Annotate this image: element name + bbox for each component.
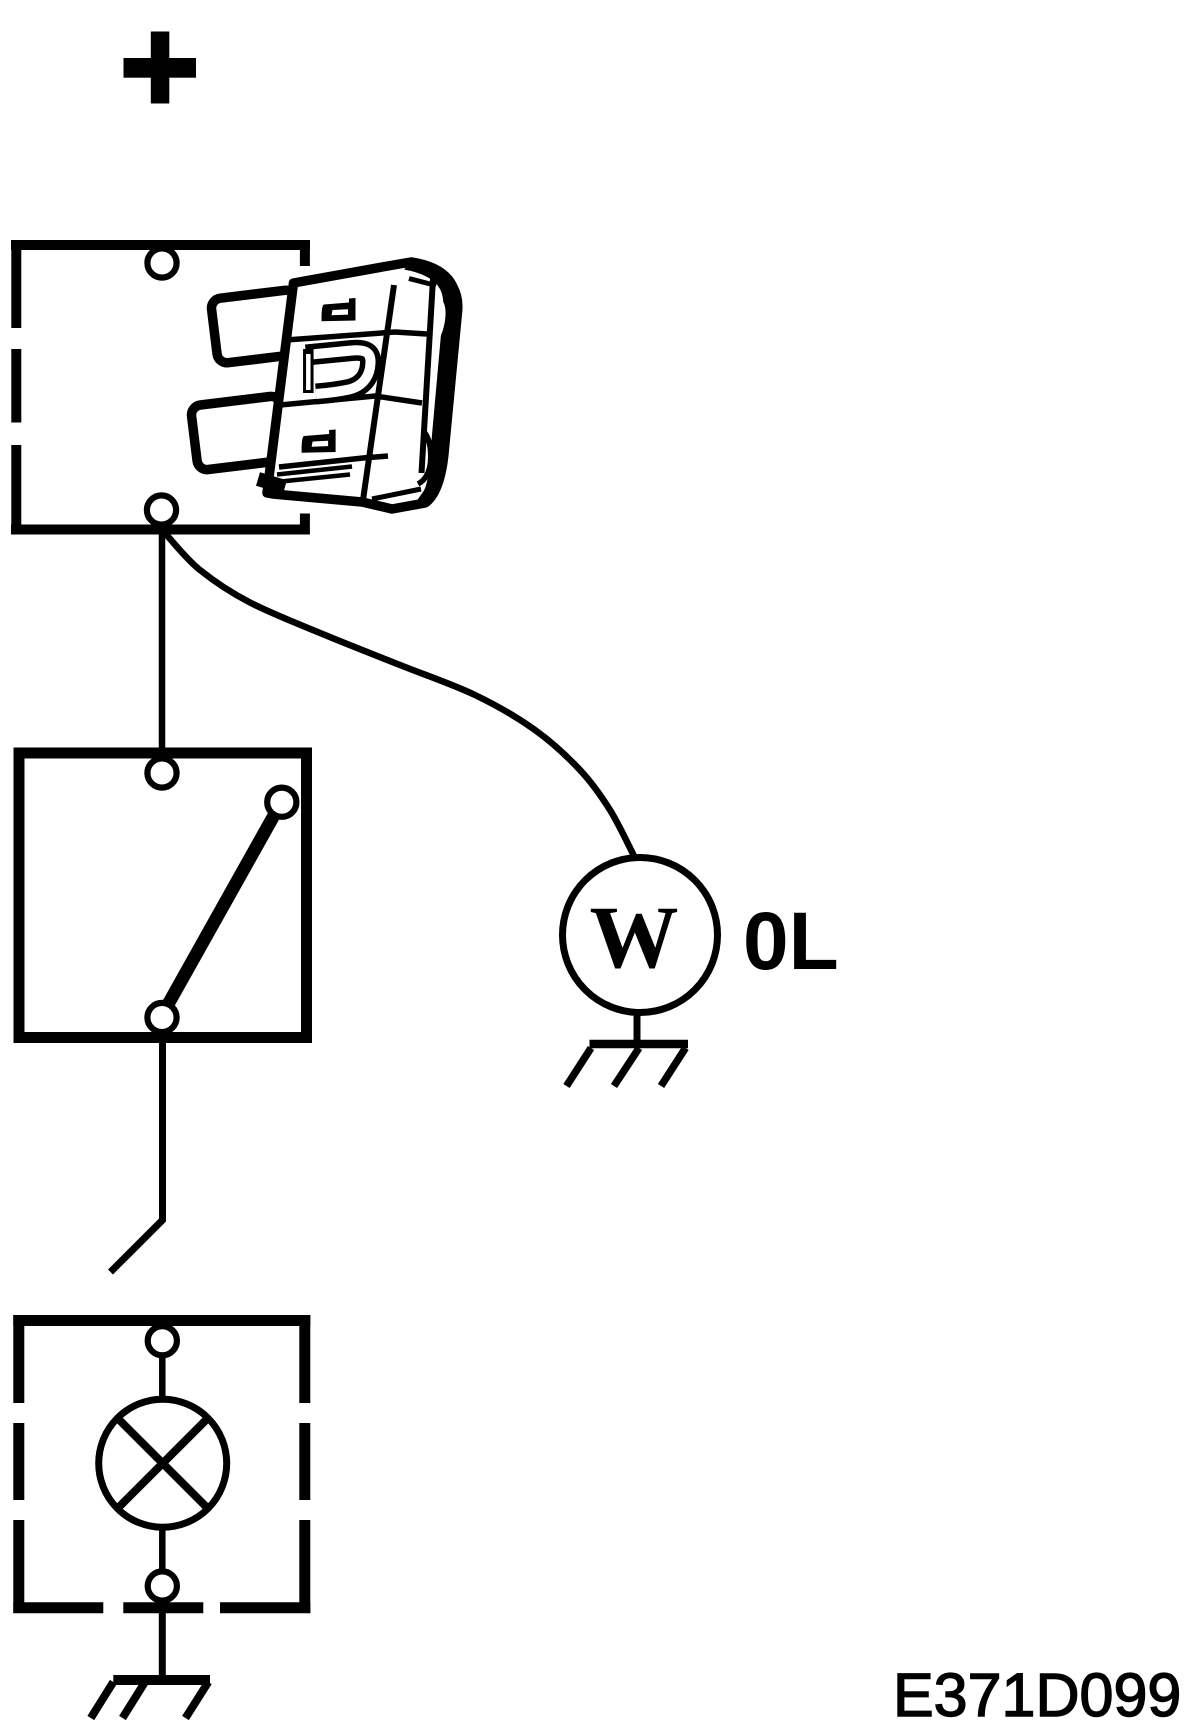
- wire switch box to open switch: [111, 1040, 163, 1272]
- wire terminal to bulb: [159, 1353, 166, 1400]
- fuse body outline: [267, 262, 458, 509]
- fuse window top line: [286, 332, 427, 340]
- battery positive terminal +: [124, 32, 197, 104]
- fuse box top terminal: [147, 248, 176, 277]
- switch box top terminal: [147, 758, 176, 787]
- fuse box bottom terminal: [147, 495, 176, 524]
- fuse window bottom line: [280, 396, 422, 405]
- lamp box (dashed): [13, 1315, 310, 1613]
- fuse blade terminal (bottom): [190, 395, 287, 470]
- bulb (circle with X): [99, 1399, 227, 1527]
- switch pivot contact: [267, 788, 296, 817]
- wire fuse box to switch box: [159, 512, 166, 765]
- wire to ground: [159, 1598, 166, 1678]
- svg-text:0L: 0L: [743, 896, 839, 987]
- fuse bottom-right hook: [418, 431, 431, 484]
- fuse bottom seam lines: [279, 456, 388, 467]
- fuse blade terminal (top): [210, 289, 302, 364]
- wire bulb to bottom terminal: [159, 1527, 166, 1573]
- warning lamp W: [563, 858, 718, 1013]
- fuse element (S strip): [306, 349, 371, 394]
- fuse (blade fuse pictorial): [190, 262, 457, 509]
- svg-text:E371D099: E371D099: [893, 1661, 1181, 1729]
- fuse top-right slot: [436, 302, 444, 341]
- fuse body right band (thick edge): [404, 262, 458, 505]
- wire to warning lamp W (curved): [164, 527, 634, 856]
- lamp box bottom terminal: [148, 1571, 177, 1600]
- switch box (relay): [19, 753, 307, 1038]
- fuse rating mark (top): [322, 298, 356, 321]
- svg-text:W: W: [590, 889, 679, 987]
- fuse rating mark (bottom): [302, 430, 336, 453]
- fuse box F (dashed): [11, 240, 310, 535]
- lamp box top terminal: [148, 1326, 177, 1355]
- wire W to ground: [634, 1014, 641, 1045]
- switch box bottom terminal: [147, 1003, 176, 1032]
- ground (W branch): [567, 1044, 689, 1086]
- switch lever: [166, 810, 277, 1008]
- ground (lamp): [91, 1680, 210, 1718]
- fuse front/side edge lines: [363, 285, 394, 500]
